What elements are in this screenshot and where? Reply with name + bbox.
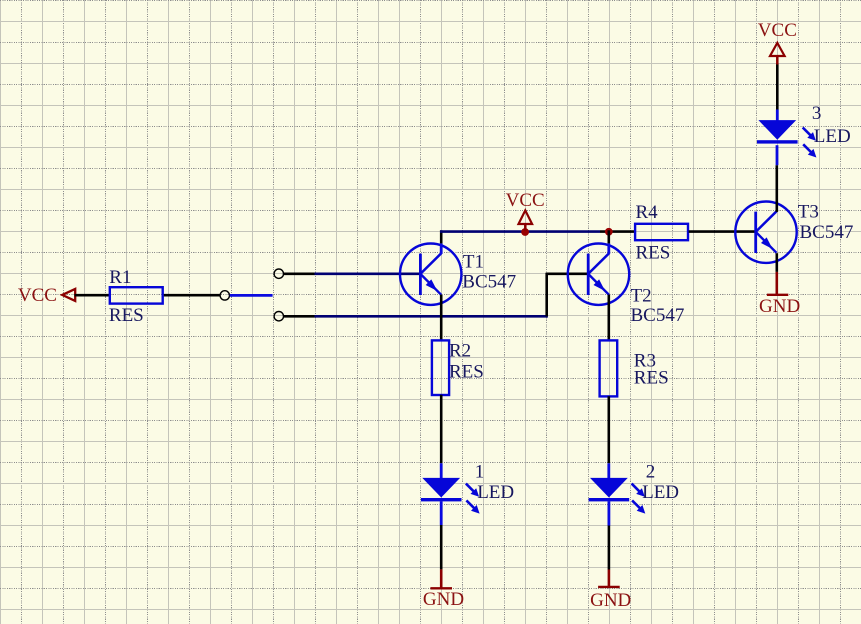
LED D2: [589, 478, 646, 514]
LED D1: [421, 478, 480, 514]
wire T3 collector (black) up to LED3: [775, 165, 778, 212]
junction node VCC rail / T2 collector: [605, 228, 613, 236]
svg-text:R2: R2: [449, 340, 471, 361]
wire LED1 to GND: [440, 525, 443, 569]
wire T1 collector up to VCC rail: [440, 230, 443, 243]
wire R1 to node: [164, 294, 220, 297]
svg-text:T3: T3: [798, 201, 819, 222]
svg-text:3: 3: [812, 103, 822, 124]
wire VCC rail black segment to R4: [600, 230, 635, 233]
junction node VCC rail / power: [521, 228, 529, 236]
svg-text:R4: R4: [636, 202, 659, 223]
svg-text:VCC: VCC: [18, 285, 57, 306]
wire input A navy segment to T1 base: [315, 272, 421, 275]
wire LED3 cathode pin (blue): [776, 145, 779, 165]
svg-text:BC547: BC547: [462, 271, 516, 292]
node: open terminal input A: [274, 269, 283, 278]
wire input B black segment: [284, 315, 315, 318]
svg-text:LED: LED: [477, 482, 514, 503]
transistor T1 BC547: [400, 244, 461, 305]
svg-text:LED: LED: [814, 126, 851, 147]
wire T1 collector pin (blue, inside circle): [440, 243, 443, 254]
wire LED2 cathode pin (blue): [608, 501, 611, 525]
svg-text:GND: GND: [423, 589, 464, 610]
svg-text:1: 1: [475, 462, 485, 483]
node: open terminal at R1 output: [220, 291, 229, 300]
wire LED3 anode pin (blue): [776, 110, 779, 121]
node: open terminal input B: [274, 312, 283, 321]
svg-text:GND: GND: [759, 296, 800, 317]
wire LED2 to GND: [608, 526, 611, 570]
transistor T2 BC547: [568, 244, 629, 305]
wire VCC to R1: [75, 294, 110, 297]
ground GND (LED2): stem: [608, 570, 611, 587]
wire T2 collector pin (blue): [607, 243, 610, 254]
resistor R1: [110, 287, 163, 303]
wire (blue) from node rightward: [230, 294, 273, 297]
wire T2 emitter down to R3: [607, 295, 610, 342]
svg-text:RES: RES: [636, 242, 671, 263]
wire LED2 anode pin (blue): [607, 463, 610, 479]
svg-text:R1: R1: [109, 267, 131, 288]
wire R3 to LED2: [607, 396, 610, 463]
svg-text:VCC: VCC: [506, 190, 545, 211]
svg-text:VCC: VCC: [758, 20, 797, 41]
ground GND (T3): bar: [767, 294, 788, 296]
svg-text:BC547: BC547: [800, 222, 854, 243]
ground GND (LED1): bar: [430, 587, 452, 589]
wire LED3 to VCC: [776, 64, 779, 110]
wire T2 collector to rail: [607, 230, 610, 243]
wire LED1 cathode pin (blue): [440, 501, 443, 525]
svg-text:2: 2: [646, 462, 656, 483]
transistor T3 BC547: [735, 202, 796, 263]
svg-text:BC547: BC547: [631, 305, 685, 326]
wire R2 to LED1: [440, 395, 443, 464]
svg-text:T2: T2: [631, 286, 652, 307]
resistor R4: [635, 224, 688, 240]
wire T1 emitter down to R2: [440, 295, 443, 341]
ground GND (LED1): stem: [440, 569, 443, 588]
wire jog vertical to T2 base level: [545, 273, 548, 317]
wire LED1 anode pin (blue): [440, 463, 443, 479]
svg-text:GND: GND: [590, 590, 631, 611]
resistor R3: [600, 340, 618, 396]
power port VCC (middle): [506, 190, 545, 231]
svg-text:RES: RES: [449, 362, 484, 383]
wire VCC rail navy segment: [440, 230, 600, 233]
svg-text:T1: T1: [463, 251, 484, 272]
LED D3: [757, 120, 816, 157]
power port VCC (top right): [758, 20, 797, 64]
svg-text:RES: RES: [109, 305, 144, 326]
resistor R2: [432, 340, 449, 395]
svg-text:RES: RES: [634, 367, 669, 388]
wire jog to T2 base: [547, 272, 589, 275]
ground GND (LED2): bar: [598, 586, 620, 588]
power port VCC (left): [18, 285, 75, 306]
svg-text:LED: LED: [642, 482, 679, 503]
wire input B navy segment: [315, 315, 548, 318]
wire T3 emitter down (black): [775, 253, 778, 272]
wire R4 to T3 base: [689, 230, 756, 233]
wire input A black segment: [284, 272, 315, 275]
ground GND (T3): stem: [775, 272, 778, 295]
